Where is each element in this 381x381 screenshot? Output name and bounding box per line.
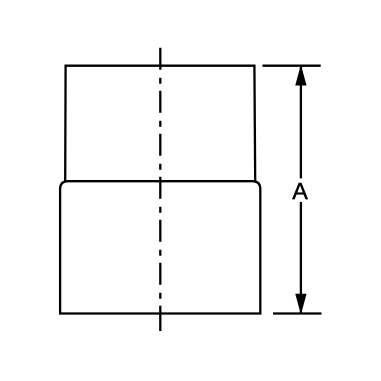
dimension label A xyxy=(292,183,308,199)
top rectangle (upper body of fitting) xyxy=(65,66,255,182)
bottom rectangle (socket body, rounded top corners) xyxy=(60,181,260,313)
dimension line upper segment xyxy=(300,67,302,178)
arrowhead down (bottom of dimension A) xyxy=(296,294,306,313)
arrowhead up (top of dimension A) xyxy=(296,67,306,86)
extension line top xyxy=(263,65,321,67)
extension line bottom xyxy=(273,312,322,314)
centerline (vertical dash-dot) xyxy=(159,48,161,300)
dimension line lower segment xyxy=(300,202,302,313)
centerline final dash xyxy=(159,306,161,331)
